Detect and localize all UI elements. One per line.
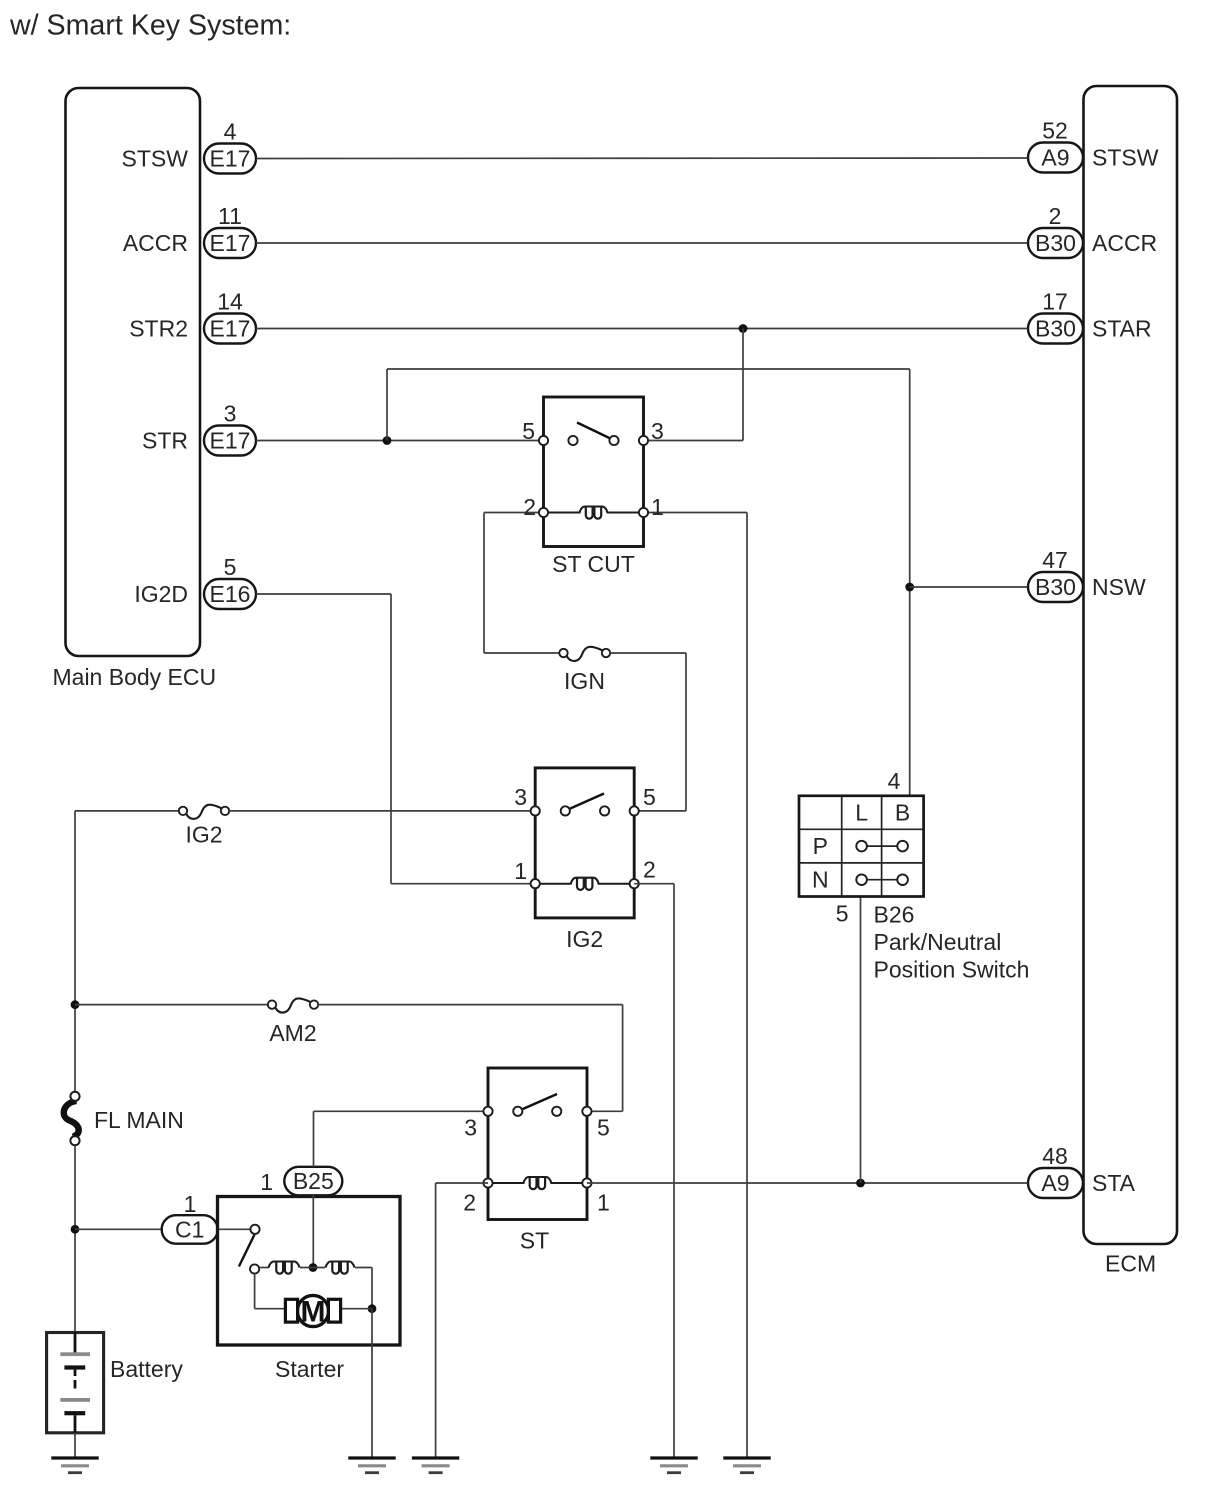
wire ST CUT pin 1 right	[644, 512, 748, 514]
svg-text:Park/Neutral: Park/Neutral	[874, 929, 1002, 955]
starter switch blade	[239, 1235, 255, 1267]
svg-text:ACCR: ACCR	[123, 230, 188, 256]
svg-text:5: 5	[224, 554, 237, 580]
wire FL MAIN to battery	[74, 1145, 76, 1333]
svg-text:ACCR: ACCR	[1092, 230, 1157, 256]
svg-text:11: 11	[218, 203, 242, 229]
wire motor to junction	[341, 1308, 372, 1310]
svg-text:3: 3	[514, 784, 527, 810]
wire B26 pin 5 to STA junction	[860, 897, 862, 1184]
svg-text:STR: STR	[142, 428, 188, 454]
svg-text:L: L	[855, 800, 868, 826]
wire ST pin 2 down to ground	[435, 1183, 437, 1457]
svg-text:52: 52	[1042, 118, 1068, 144]
svg-text:Battery: Battery	[110, 1356, 183, 1382]
node STA junction	[856, 1179, 865, 1188]
svg-text:1: 1	[184, 1191, 197, 1217]
node motor right junction	[368, 1304, 377, 1313]
svg-text:E17: E17	[210, 316, 251, 342]
wire STR junction up	[386, 369, 388, 441]
connector E17 pin 11 (ACCR)	[204, 228, 256, 258]
ground (ST CUT relay coil)	[723, 1458, 770, 1473]
connector E17 pin 4 (STSW)	[204, 144, 256, 174]
svg-text:NSW: NSW	[1092, 574, 1146, 600]
wire coil down	[371, 1268, 373, 1309]
svg-text:3: 3	[651, 418, 664, 444]
battery plate long 2	[60, 1398, 90, 1402]
battery dashed link	[74, 1380, 77, 1389]
svg-text:Main Body ECU: Main Body ECU	[53, 664, 217, 690]
relay ST CUT switch blade	[577, 423, 613, 440]
svg-text:B: B	[895, 800, 910, 826]
relay ST CUT pin 5 terminal	[539, 436, 548, 445]
svg-text:B30: B30	[1035, 230, 1076, 256]
battery plate short 1	[64, 1365, 85, 1369]
svg-text:2: 2	[463, 1190, 476, 1216]
wire AM2 down	[622, 1005, 624, 1112]
B26 P row contact B	[897, 841, 908, 852]
wire left rail (IG2 fuse to FL MAIN)	[74, 811, 76, 1092]
svg-text:E17: E17	[210, 428, 251, 454]
svg-text:ECM: ECM	[1105, 1251, 1156, 1277]
relay ST CUT pin 2 terminal	[539, 508, 548, 517]
wire battery to ground	[74, 1433, 76, 1457]
wire NSW (junction to B30-47)	[910, 586, 1028, 588]
svg-text:B25: B25	[293, 1168, 334, 1194]
svg-text:14: 14	[217, 289, 243, 315]
motor M	[285, 1295, 340, 1328]
svg-text:3: 3	[464, 1115, 477, 1141]
relay ST CUT pin 1 terminal	[639, 508, 648, 517]
wire STR2 (E17-14 to B30-17 STAR)	[256, 328, 1028, 330]
relay IG2 switch contact right	[600, 806, 609, 815]
svg-text:B26: B26	[874, 902, 915, 928]
relay IG2 pin 2 terminal	[630, 879, 639, 888]
wire into IG2 pin 5	[634, 810, 686, 812]
B26 P row contact L	[856, 841, 867, 852]
svg-text:IGN: IGN	[564, 668, 605, 694]
svg-text:2: 2	[643, 857, 656, 883]
svg-text:1: 1	[260, 1169, 273, 1195]
relay IG2 switch blade	[568, 794, 604, 810]
connector E16 pin 5 (IG2D)	[204, 579, 256, 609]
connector B25 pin 1	[284, 1167, 342, 1196]
wire IG2D to IG2 relay pin 1	[391, 883, 535, 885]
svg-text:M: M	[301, 1296, 326, 1329]
svg-text:A9: A9	[1041, 1170, 1069, 1196]
connector E17 pin 3 (STR)	[204, 426, 256, 456]
wire ST CUT pin 3 to STAR branch	[644, 440, 744, 442]
relay IG2 coil	[535, 878, 634, 890]
ground (starter)	[348, 1458, 395, 1473]
node AM2 junction	[71, 1000, 80, 1009]
wire B25 down to coil junction	[312, 1195, 314, 1268]
wire starter ground	[371, 1309, 373, 1457]
svg-text:17: 17	[1042, 289, 1068, 315]
battery box	[47, 1333, 104, 1433]
ECM box	[1084, 86, 1178, 1244]
wire STR branch horizontal	[387, 368, 910, 370]
svg-text:P: P	[813, 833, 828, 859]
svg-text:STA: STA	[1092, 1170, 1136, 1196]
battery top stem	[74, 1333, 77, 1355]
ground (IG2 relay coil)	[650, 1458, 697, 1473]
node STR junction	[383, 436, 392, 445]
relay ST CUT box	[544, 397, 644, 547]
svg-text:5: 5	[643, 784, 656, 810]
B26 N row contact L	[856, 874, 867, 885]
starter switch contact top	[250, 1225, 259, 1234]
wire ST pin 2 left	[436, 1182, 488, 1184]
node STAR junction	[739, 324, 748, 333]
node starter coil junction	[309, 1263, 318, 1272]
wire to C1	[75, 1228, 162, 1230]
svg-text:E17: E17	[210, 146, 251, 172]
connector B30 pin 2 (ACCR)	[1028, 228, 1083, 258]
wire IG2D down	[390, 594, 392, 884]
wire ACCR (E17-11 to B30-2)	[256, 242, 1028, 244]
switch B26 table	[799, 796, 924, 897]
wire IGN fuse to right	[610, 652, 686, 654]
svg-text:E17: E17	[210, 230, 251, 256]
relay ST pin 3 terminal	[483, 1107, 492, 1116]
svg-text:STAR: STAR	[1092, 316, 1152, 342]
svg-text:2: 2	[1049, 203, 1062, 229]
relay ST box	[488, 1068, 587, 1220]
relay ST CUT switch contact right	[609, 436, 618, 445]
relay ST coil	[488, 1177, 587, 1189]
relay IG2 pin 3 terminal	[531, 806, 540, 815]
svg-text:1: 1	[651, 494, 664, 520]
connector A9 pin 48 (STA)	[1028, 1168, 1083, 1198]
fuse AM2	[268, 998, 318, 1012]
svg-text:1: 1	[597, 1190, 610, 1216]
relay ST CUT coil	[544, 507, 644, 519]
battery plate short 2	[64, 1411, 85, 1415]
svg-text:ST: ST	[520, 1228, 549, 1254]
relay ST pin 5 terminal	[582, 1107, 591, 1116]
wire STA (ST pin 1 to A9-48)	[587, 1182, 1028, 1184]
wire STAR junction down to ST CUT pin 3	[742, 329, 744, 441]
connector B30 pin 47 (NSW)	[1028, 572, 1083, 602]
relay IG2 box	[535, 768, 634, 918]
wire down to B26 pin 4	[909, 369, 911, 796]
wire down to IG2 relay pin 5	[685, 653, 687, 811]
relay ST pin 2 terminal	[483, 1178, 492, 1187]
ground (ST relay coil)	[412, 1458, 459, 1473]
svg-text:STSW: STSW	[122, 146, 189, 172]
wire ST pin 3 row	[314, 1110, 489, 1112]
connector E17 pin 14 (STR2)	[204, 314, 256, 344]
wire to IGN fuse	[484, 652, 560, 654]
svg-text:2: 2	[523, 494, 536, 520]
svg-text:5: 5	[597, 1115, 610, 1141]
svg-text:AM2: AM2	[269, 1020, 316, 1046]
ground (battery)	[51, 1458, 98, 1473]
wire switch to motor row	[254, 1274, 256, 1309]
relay IG2 pin 1 terminal	[531, 879, 540, 888]
wire IG2 pin 2 right	[634, 883, 674, 885]
connector B30 pin 17 (STAR)	[1028, 314, 1083, 344]
svg-text:STR2: STR2	[129, 316, 188, 342]
fuse IG2	[179, 805, 229, 819]
svg-text:4: 4	[888, 768, 901, 794]
svg-text:B30: B30	[1035, 574, 1076, 600]
relay ST switch blade	[521, 1094, 558, 1110]
starter switch contact bottom	[250, 1264, 259, 1273]
svg-text:IG2D: IG2D	[134, 581, 188, 607]
svg-text:FL MAIN: FL MAIN	[94, 1107, 184, 1133]
wire IG2 fuse to relay pin 3	[229, 810, 535, 812]
relay ST switch contact right	[552, 1107, 561, 1116]
svg-text:Position Switch: Position Switch	[874, 957, 1030, 983]
B26 N row contact link	[866, 879, 898, 881]
connector C1 pin 1	[162, 1215, 218, 1244]
battery plate long 1	[60, 1352, 90, 1356]
node C1 junction	[71, 1225, 80, 1234]
relay ST pin 1 terminal	[582, 1178, 591, 1187]
svg-text:IG2: IG2	[566, 926, 603, 952]
wire STR (E17-3 to ST CUT pin 5)	[256, 440, 544, 442]
B26 N row contact B	[897, 874, 908, 885]
relay ST switch contact left	[513, 1107, 522, 1116]
svg-text:E16: E16	[210, 581, 251, 607]
starter pull-in coil	[269, 1262, 300, 1274]
relay IG2 pin 5 terminal	[630, 806, 639, 815]
wire AM2 to ST relay pin 5	[587, 1110, 623, 1112]
wire AM2 row left	[75, 1004, 268, 1006]
starter box	[218, 1197, 401, 1346]
svg-text:47: 47	[1042, 547, 1068, 573]
wire C1 to starter switch	[218, 1228, 251, 1230]
connector A9 pin 52 (STSW)	[1028, 143, 1083, 173]
node NSW junction	[905, 583, 914, 592]
svg-text:N: N	[812, 867, 829, 893]
svg-text:A9: A9	[1041, 145, 1069, 171]
wire ST CUT pin 2 down	[483, 513, 485, 654]
wire ST CUT pin 2 left	[484, 512, 544, 514]
relay IG2 switch contact left	[561, 806, 570, 815]
wire IG2 pin 2 down to ground	[673, 884, 675, 1457]
svg-text:5: 5	[522, 418, 535, 444]
wire IG2D (E16-5) right	[256, 593, 391, 595]
svg-text:w/ Smart Key System:: w/ Smart Key System:	[9, 10, 291, 42]
svg-text:Starter: Starter	[275, 1356, 344, 1382]
svg-text:3: 3	[224, 401, 237, 427]
wire coil junction	[300, 1267, 325, 1269]
Main Body ECU box	[66, 88, 201, 656]
svg-text:4: 4	[224, 119, 237, 145]
wire ST CUT pin 1 down to ground	[746, 513, 748, 1458]
fuse IGN	[559, 647, 610, 661]
svg-text:48: 48	[1042, 1143, 1068, 1169]
wire down to B25	[313, 1111, 315, 1167]
wire STSW (E17-4 to A9-52)	[256, 157, 1028, 160]
relay ST CUT pin 3 terminal	[639, 436, 648, 445]
starter hold-in coil	[326, 1262, 355, 1274]
relay ST CUT switch contact left	[568, 436, 577, 445]
svg-text:STSW: STSW	[1092, 145, 1159, 171]
svg-text:B30: B30	[1035, 316, 1076, 342]
svg-text:IG2: IG2	[185, 822, 222, 848]
svg-text:1: 1	[514, 858, 527, 884]
svg-text:ST CUT: ST CUT	[552, 551, 635, 577]
svg-text:5: 5	[836, 901, 849, 927]
wire left rail to IG2 fuse	[75, 810, 179, 812]
fusible link FL MAIN	[64, 1092, 80, 1146]
wire contact to pull-in coil	[259, 1267, 269, 1269]
B26 P row contact link	[866, 845, 898, 847]
wire hold-in coil right	[355, 1267, 372, 1269]
wire AM2 fuse right	[318, 1004, 623, 1006]
svg-text:C1: C1	[175, 1217, 204, 1243]
